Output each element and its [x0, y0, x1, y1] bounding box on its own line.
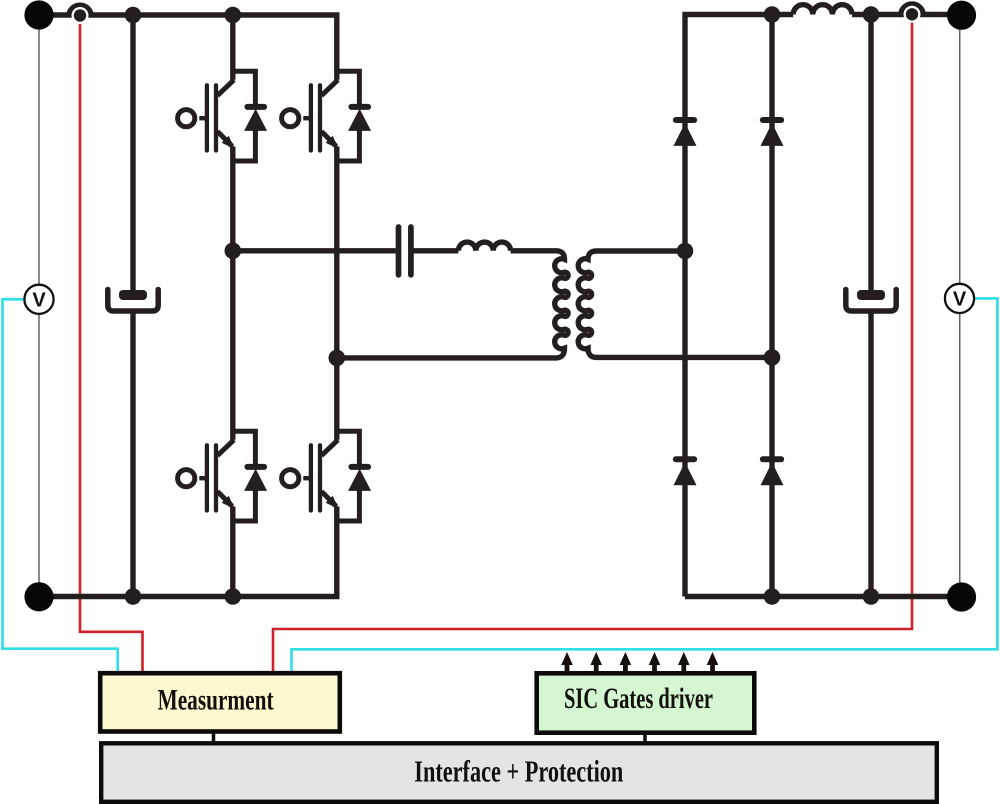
transformer primary winding: [337, 251, 568, 358]
voltmeter V2: [945, 284, 974, 313]
wire rectifier leg2: [769, 15, 774, 597]
transformer secondary winding: [578, 251, 772, 357]
connector SIC driver to Interface: [643, 733, 647, 744]
wire bottom bus right: [685, 594, 962, 599]
junction node top bus cap branch: [125, 7, 142, 24]
junction node top bus output cap: [863, 6, 880, 23]
wire red probe left to Measurment box: [80, 15, 143, 671]
probe terminal left: [69, 5, 92, 24]
wire thin voltmeter lead left: [38, 15, 40, 597]
wire top bus with corner into leg 2: [39, 15, 337, 80]
wire red probe right to Measurment box: [273, 14, 912, 672]
junction node mid bus2 leg2: [329, 350, 346, 367]
svg-text:Measurment: Measurment: [158, 684, 274, 717]
probe terminal right: [901, 4, 924, 23]
wire output capacitor branch upper: [868, 15, 873, 293]
svg-text:Interface + Protection: Interface + Protection: [414, 754, 623, 789]
gate drive arrow 1: [561, 652, 573, 672]
Measurment block: [100, 673, 340, 731]
wire bottom bus left with corner into leg 2: [39, 507, 337, 597]
capacitor C2 output filter: [846, 290, 896, 312]
junction node bottom bus rectifier leg2: [764, 588, 781, 605]
junction node top bus rectifier leg2: [764, 6, 781, 23]
IGBT Q2: [282, 71, 372, 161]
wire capacitor to inductor: [411, 248, 458, 253]
wire top bus right segment: [852, 12, 962, 17]
gate drive arrow 6: [707, 652, 719, 672]
connector Measurment to Interface: [212, 732, 216, 744]
wire thin voltmeter lead right: [959, 15, 961, 597]
Interface Protection block: [101, 743, 937, 802]
IGBT Q4: [282, 431, 372, 521]
wire left DC-link capacitor branch lower: [130, 310, 135, 597]
gate drive arrow 4: [649, 652, 661, 672]
IGBT Q3: [178, 431, 268, 521]
junction node bottom bus leg1: [225, 588, 242, 605]
wire leg1 middle: [230, 147, 235, 440]
wire leg1 top stub: [230, 15, 235, 80]
resonant capacitor right plate: [408, 227, 414, 275]
junction node mid bus leg1: [225, 243, 242, 260]
resonant capacitor left plate: [396, 227, 402, 275]
wire leg1 bottom: [230, 507, 235, 597]
terminal node top left: [24, 0, 53, 29]
junction node secondary bottom: [764, 349, 781, 366]
diode D1: [674, 120, 697, 146]
gate drive arrow 5: [678, 652, 690, 672]
SIC Gates driver block: [537, 673, 755, 732]
wire cyan voltmeter left to Measurment box: [3, 299, 118, 671]
wire left DC-link capacitor branch upper: [130, 15, 135, 292]
terminal node bottom right: [947, 582, 976, 611]
svg-text:SIC Gates driver: SIC Gates driver: [564, 682, 713, 715]
gate drive arrow 2: [590, 652, 602, 672]
junction node bottom bus output cap: [863, 588, 880, 605]
junction node secondary top: [677, 243, 694, 260]
terminal node top right: [947, 1, 976, 30]
resonant inductor Lr: [458, 242, 510, 251]
gate drive arrow 3: [620, 652, 632, 672]
junction node top bus leg1: [225, 7, 242, 24]
wire inductor to transformer primary: [511, 248, 556, 253]
wire cyan voltmeter right to Measurment box: [292, 298, 998, 671]
capacitor C1 input DC-link: [108, 290, 158, 312]
output filter inductor Lo: [793, 5, 852, 15]
wire leg2 middle: [334, 147, 339, 440]
diode D4: [761, 459, 784, 485]
voltmeter V1: [24, 285, 53, 314]
junction node bottom bus cap branch: [125, 588, 142, 605]
diode D2: [761, 120, 784, 146]
terminal node bottom left: [24, 582, 53, 611]
IGBT Q1: [178, 71, 268, 161]
wire mid bus to resonant capacitor: [233, 248, 396, 253]
diode D3: [674, 459, 697, 485]
wire rectifier leg1 with corner into top bus: [685, 15, 793, 597]
wire output capacitor branch lower: [868, 310, 873, 597]
